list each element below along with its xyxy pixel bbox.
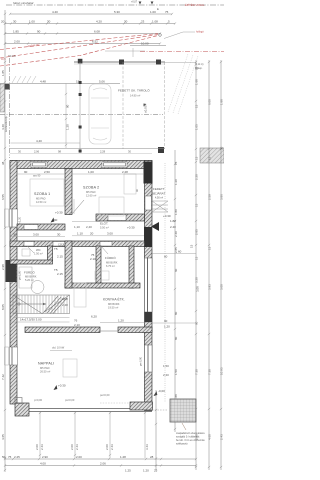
stairs/hall divider x65 lower: [65, 241, 72, 288]
svg-text:BEJÁRAT: BEJÁRAT: [152, 192, 165, 196]
svg-text:szomszéd ép.: szomszéd ép.: [4, 116, 8, 132]
svg-text:25: 25: [154, 469, 158, 473]
svg-text:15: 15: [195, 156, 199, 160]
svg-text:28: 28: [150, 455, 154, 459]
svg-text:12.50 m²: 12.50 m²: [36, 200, 46, 204]
svg-text:1,20: 1,20: [164, 325, 170, 329]
dining table: [63, 359, 77, 377]
svg-text:3.43: 3.43: [145, 444, 149, 450]
room FURDO 2: [105, 255, 118, 268]
svg-text:15: 15: [190, 244, 194, 248]
right wall entrance door opening: [145, 196, 152, 210]
paving edge above house: [10, 148, 165, 150]
svg-text:±0,00: ±0,00: [144, 105, 148, 113]
svg-text:1,08: 1,08: [62, 297, 68, 301]
carport columns: [78, 59, 161, 65]
furdo2 door leaf: [101, 246, 108, 254]
paving corner pillar: [158, 147, 164, 153]
walkway dashed: [164, 163, 166, 402]
svg-text:2.15: 2.15: [57, 272, 63, 276]
svg-text:4.40: 4.40: [52, 10, 58, 14]
svg-text:14,90 m²: 14,90 m²: [130, 94, 140, 98]
svg-text:1.68: 1.68: [195, 79, 199, 85]
svg-text:2,06: 2,06: [34, 150, 40, 154]
svg-text:75: 75: [8, 455, 12, 459]
dash-dot mid line carport: [0, 114, 163, 116]
svg-text:5.30: 5.30: [114, 10, 120, 14]
carport left post line: [79, 62, 81, 153]
left wall window nappali: [5, 347, 18, 365]
svg-text:15: 15: [195, 203, 199, 207]
svg-text:1,30: 1,30: [66, 124, 70, 130]
svg-text:12.60 m²: 12.60 m²: [86, 194, 96, 198]
svg-text:90: 90: [37, 30, 41, 34]
red roof slope dashed line 2: [0, 36, 158, 67]
svg-text:2.25: 2.25: [14, 455, 20, 459]
red roof slope dashed line 1: [0, 34, 158, 50]
red junction circle: [159, 34, 162, 37]
svg-text:+0.30: +0.30: [55, 211, 63, 215]
carport right dashed line: [122, 62, 124, 149]
svg-text:NAPPALI: NAPPALI: [38, 362, 54, 366]
svg-text:ELŐT.: ELŐT.: [100, 221, 109, 226]
svg-text:90: 90: [66, 104, 70, 108]
eloter inner dims: [74, 225, 92, 229]
svg-text:2,28: 2,28: [100, 150, 106, 154]
svg-text:1.25: 1.25: [125, 469, 131, 473]
svg-text:FÜRDŐ: FÜRDŐ: [24, 270, 35, 275]
red label with leader right: [164, 31, 204, 39]
wc right wall: [48, 246, 53, 261]
svg-text:7.30: 7.30: [195, 369, 199, 375]
szoba1 bed: [30, 179, 64, 206]
svg-text:2.00: 2.00: [76, 455, 82, 459]
top dimension chain row 2: [1, 20, 175, 24]
svg-text:ps=0,00: ps=0,00: [65, 398, 75, 402]
svg-text:2,10: 2,10: [74, 323, 80, 327]
svg-text:1,50: 1,50: [163, 364, 169, 368]
svg-text:4.20: 4.20: [96, 20, 102, 24]
dim above kitchen wall: [100, 322, 152, 324]
svg-text:FEDETT GK. TÁROLÓ: FEDETT GK. TÁROLÓ: [118, 88, 150, 93]
svg-text:15: 15: [195, 104, 199, 108]
svg-text:90: 90: [54, 218, 58, 222]
svg-text:15: 15: [174, 161, 178, 165]
red dash-dot continuation right: [140, 51, 224, 53]
svg-text:+0.30: +0.30: [163, 214, 171, 218]
neighbour wall edge line: [0, 83, 120, 85]
right wall dark corner column: [144, 162, 153, 184]
connector line carport to chains: [165, 62, 196, 64]
svg-text:90: 90: [164, 319, 168, 323]
svg-text:FEDETT: FEDETT: [153, 187, 165, 191]
svg-text:2.43: 2.43: [40, 444, 44, 450]
svg-text:old. 10 kW: old. 10 kW: [52, 346, 65, 350]
svg-text:2.43: 2.43: [75, 444, 79, 450]
svg-text:30: 30: [13, 233, 17, 237]
svg-text:60: 60: [174, 268, 178, 272]
svg-text:1.08: 1.08: [152, 20, 158, 24]
svg-text:4,48: 4,48: [40, 80, 46, 84]
svg-text:1.50 m²: 1.50 m²: [34, 252, 43, 256]
svg-text:80: 80: [174, 336, 178, 340]
room ELOTER: [100, 221, 109, 230]
svg-text:3.86: 3.86: [220, 194, 224, 200]
bottom glass wall: [15, 402, 153, 416]
svg-text:SZOBA 2: SZOBA 2: [83, 186, 99, 190]
hall / szoba1 bottom wall: [17, 224, 65, 230]
svg-text:T5: T5: [54, 247, 58, 251]
svg-text:2,40: 2,40: [86, 225, 92, 229]
svg-text:lakóép.: lakóép.: [195, 68, 203, 70]
svg-text:1.10: 1.10: [77, 232, 83, 236]
note text bottom right: [176, 432, 205, 446]
svg-text:10,00: 10,00: [141, 42, 149, 46]
svg-text:3.20: 3.20: [195, 277, 199, 283]
svg-text:+0.30: +0.30: [58, 384, 66, 388]
room SZOBA 1: [34, 192, 50, 204]
tick marks top chains: [4, 13, 176, 45]
window opening in top wall (szoba2): [102, 162, 127, 168]
svg-text:19.50 m²: 19.50 m²: [108, 306, 118, 310]
svg-text:2,50: 2,50: [44, 170, 50, 174]
interior dim line szoba1: [17, 170, 65, 174]
svg-text:1.85: 1.85: [13, 30, 19, 34]
svg-text:8.05: 8.05: [1, 304, 5, 310]
svg-text:26.50 m²: 26.50 m²: [40, 370, 50, 374]
szoba2 furniture: [99, 197, 124, 216]
wc / furdo divider: [10, 260, 53, 264]
bottom chain row 2: [5, 462, 196, 473]
room FURDO left: [24, 270, 37, 283]
red roof line mid: [0, 35, 158, 59]
svg-text:30: 30: [13, 20, 17, 24]
svg-text:2.43: 2.43: [110, 444, 114, 450]
bottom right chain x156: [155, 390, 157, 470]
room WC: [34, 248, 43, 256]
svg-text:2.98: 2.98: [1, 264, 5, 270]
bathtub: [19, 267, 32, 288]
svg-text:E: E: [157, 7, 159, 11]
svg-text:1.20: 1.20: [143, 469, 149, 473]
level pm right bottom: [154, 389, 166, 396]
eave dim line right mid: [152, 250, 196, 259]
svg-text:FÜRDŐ: FÜRDŐ: [105, 255, 116, 260]
svg-text:6.75 m²: 6.75 m²: [106, 264, 115, 268]
svg-text:4,50 m²: 4,50 m²: [155, 197, 163, 200]
hall inner lines: [72, 221, 100, 223]
top dimension chain row 3: [5, 30, 160, 34]
svg-text:1.50: 1.50: [174, 369, 178, 375]
right wall dark segment below entrance: [144, 227, 152, 247]
room KONYHA-ETKEZO: [103, 297, 125, 310]
svg-text:+0,07: +0,07: [131, 1, 138, 4]
furdo2 bottom wall: [65, 283, 140, 288]
szoba2 / eloter wall: [96, 214, 145, 221]
svg-text:1,00: 1,00: [88, 170, 94, 174]
neighbour wall corner block: [5, 84, 10, 90]
entrance arrow: [151, 222, 159, 231]
paving dim texts: [18, 150, 131, 154]
svg-text:3.93: 3.93: [208, 284, 212, 290]
svg-text:15: 15: [208, 246, 212, 250]
szoba divider wall: [65, 169, 72, 215]
svg-text:1.20: 1.20: [174, 179, 178, 185]
svg-text:2,28: 2,28: [122, 170, 128, 174]
svg-text:20: 20: [1, 20, 5, 24]
stairs dim: [13, 317, 70, 319]
eave dim line right low: [152, 319, 196, 329]
svg-text:1,10: 1,10: [74, 225, 80, 229]
right exterior wall: [145, 161, 153, 411]
furdo2 fixtures: [95, 271, 109, 280]
svg-text:1.00: 1.00: [29, 20, 35, 24]
slope hatch above edge: [12, 76, 36, 83]
car outline: [89, 84, 111, 144]
wc door leaf: [27, 246, 34, 253]
svg-text:3.00: 3.00: [107, 232, 113, 236]
window opening in top wall (szoba1): [31, 162, 47, 168]
svg-text:2.20: 2.20: [195, 174, 199, 180]
wc toilet: [22, 249, 30, 256]
svg-text:2.10: 2.10: [90, 257, 96, 261]
carport inner vertical dim line: [65, 84, 67, 149]
svg-text:M5 PAD: M5 PAD: [86, 190, 96, 194]
left property dash-dot line: [9, 58, 11, 158]
svg-text:hátsó utcahatár: hátsó utcahatár: [13, 1, 35, 5]
svg-text:2.40: 2.40: [174, 231, 178, 237]
svg-text:CSÜL: CSÜL: [58, 243, 65, 247]
svg-text:-0,00: -0,00: [158, 389, 165, 393]
svg-text:2.00: 2.00: [70, 444, 74, 450]
svg-text:50: 50: [2, 455, 6, 459]
svg-text:5.50 m²: 5.50 m²: [100, 226, 109, 230]
left vertical dimension chain: [1, 10, 6, 472]
svg-text:2.00: 2.00: [14, 40, 20, 44]
svg-text:2.00: 2.00: [105, 444, 109, 450]
svg-text:15: 15: [195, 256, 199, 260]
right wall long glass opening kitchen: [145, 258, 153, 312]
svg-text:1.05: 1.05: [195, 124, 199, 130]
svg-text:5.20 m²: 5.20 m²: [25, 278, 34, 282]
room label FEDETT GK TAROLO: [118, 88, 150, 98]
svg-text:6.00: 6.00: [208, 99, 212, 105]
svg-text:1.00: 1.00: [150, 10, 156, 14]
svg-text:3.00: 3.00: [33, 233, 39, 237]
top dimension row 5: [8, 42, 166, 59]
bottom chain row 1: [2, 455, 196, 459]
dashed roofline over nappali: [100, 402, 130, 404]
room SZOBA 2: [83, 186, 99, 198]
svg-text:pe=0,00: pe=0,00: [100, 393, 110, 397]
neighbour garage hatched block top right: [200, 148, 224, 163]
svg-text:M8 BURK: M8 BURK: [25, 275, 37, 279]
svg-text:SZOBA 1: SZOBA 1: [34, 192, 50, 196]
svg-text:2,48: 2,48: [62, 303, 68, 307]
svg-text:60: 60: [178, 250, 182, 254]
gray roof slope dotted right: [168, 54, 198, 114]
top exterior wall: [10, 161, 152, 169]
svg-text:M8 BURK: M8 BURK: [108, 302, 120, 306]
svg-text:23: 23: [141, 20, 145, 24]
svg-text:szikkasztó: szikkasztó: [176, 443, 188, 446]
svg-text:1.80: 1.80: [174, 209, 178, 215]
svg-text:76: 76: [74, 319, 78, 323]
svg-text:10.93: 10.93: [220, 367, 224, 375]
right wall nappali window: [145, 345, 153, 372]
carport top edge: [74, 61, 165, 63]
svg-text:6.08: 6.08: [94, 30, 100, 34]
wc/furdo top wall: [10, 241, 145, 247]
stairs: [13, 295, 70, 314]
svg-text:WC: WC: [36, 248, 41, 252]
kitchen/nappali wall: [25, 327, 100, 333]
left wall window szoba1: [5, 209, 22, 227]
svg-text:3,08: 3,08: [196, 286, 200, 292]
pillar bottom left: [15, 398, 22, 404]
svg-text:M5 PAD: M5 PAD: [40, 366, 50, 370]
neighbour wall hatched strip: [0, 84, 4, 112]
top dimension chain row 1: [10, 10, 172, 14]
svg-text:4,40: 4,40: [36, 139, 42, 143]
svg-text:M8 BURK: M8 BURK: [106, 261, 118, 265]
furdo2 right wall: [129, 246, 134, 288]
svg-text:2.85: 2.85: [195, 229, 199, 235]
svg-text:2.15: 2.15: [57, 255, 63, 259]
svg-text:14x17,5/30 3.00: 14x17,5/30 3.00: [20, 318, 42, 322]
svg-text:75: 75: [165, 10, 169, 14]
furdo2 left wall: [96, 246, 101, 288]
top boundary dash-dot line (hatso utcahatar): [6, 1, 224, 11]
svg-text:2.59: 2.59: [208, 194, 212, 200]
svg-text:1.88: 1.88: [220, 99, 224, 105]
svg-text:2.00: 2.00: [35, 444, 39, 450]
window dims right bottom: [163, 364, 169, 377]
svg-text:7.42: 7.42: [1, 374, 5, 380]
svg-text:2.90: 2.90: [42, 455, 48, 459]
szoba2 door leaf: [72, 200, 84, 214]
svg-text:1,20: 1,20: [118, 319, 124, 323]
svg-text:38: 38: [1, 161, 5, 165]
svg-text:4.60: 4.60: [208, 434, 212, 440]
svg-text:1.28: 1.28: [120, 455, 126, 459]
svg-text:4.65: 4.65: [1, 434, 5, 440]
svg-text:15: 15: [208, 156, 212, 160]
svg-text:M5 PAD: M5 PAD: [36, 197, 46, 201]
svg-text:4.00: 4.00: [40, 462, 46, 466]
svg-text:6.55: 6.55: [1, 194, 5, 200]
level mark carport: [144, 104, 148, 114]
entrance steps: [152, 201, 168, 212]
svg-text:+0.30: +0.30: [127, 226, 135, 230]
interior dim line szoba2: [72, 170, 144, 174]
room NAPPALI: [38, 362, 54, 374]
svg-text:30: 30: [220, 146, 224, 150]
top dimension chain row 4: [5, 40, 160, 44]
svg-text:90: 90: [24, 170, 28, 174]
svg-text:p=0,00: p=0,00: [34, 398, 43, 402]
dim line above wc: [10, 236, 65, 238]
svg-text:2.40: 2.40: [170, 225, 176, 229]
carport inner dim 4.40 bottom: [11, 139, 81, 143]
left exterior wall: [10, 161, 17, 405]
svg-text:2,40: 2,40: [163, 373, 169, 377]
svg-text:7.30: 7.30: [208, 369, 212, 375]
svg-text:2.06: 2.06: [100, 462, 106, 466]
kitchen counter: [74, 283, 86, 307]
svg-text:2.43: 2.43: [220, 434, 224, 440]
svg-text:KONYHA-ÉTK.: KONYHA-ÉTK.: [103, 297, 125, 302]
svg-text:20: 20: [90, 232, 94, 236]
svg-text:80: 80: [174, 311, 178, 315]
svg-text:pm 0,90: pm 0,90: [140, 356, 143, 366]
svg-text:1.85: 1.85: [1, 70, 5, 76]
svg-text:6,20: 6,20: [91, 315, 97, 319]
svg-text:(2,11 m): (2,11 m): [195, 64, 204, 66]
svg-text:3.00: 3.00: [220, 284, 224, 290]
svg-text:15: 15: [76, 80, 80, 84]
left wall window furdo (dark): [6, 260, 22, 282]
svg-text:30: 30: [57, 233, 61, 237]
svg-text:60: 60: [164, 255, 168, 259]
washbasin circle: [31, 281, 44, 294]
svg-text:5,06: 5,06: [99, 80, 105, 84]
svg-text:hófogó: hófogó: [196, 31, 204, 34]
svg-text:±0,5: ±0,5: [1, 58, 6, 61]
